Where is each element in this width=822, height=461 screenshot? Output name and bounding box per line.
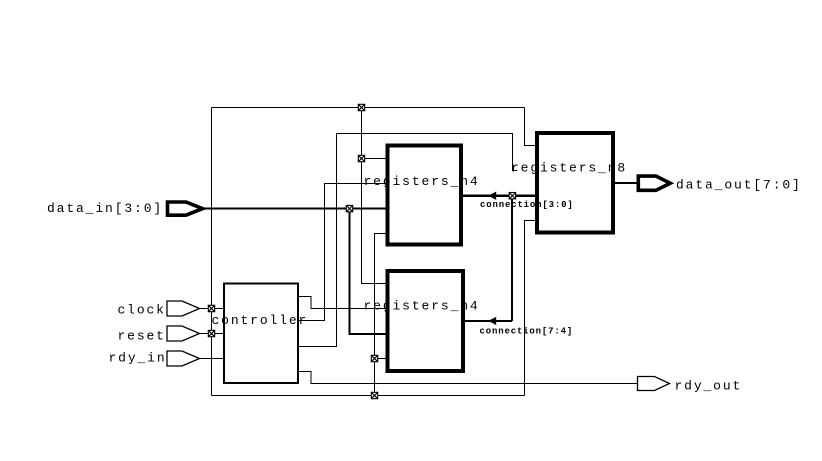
svg-text:data_out[7:0]: data_out[7:0]	[676, 178, 802, 193]
junction on top loop	[358, 104, 364, 110]
svg-text:rdy_out: rdy_out	[675, 379, 743, 394]
junction on bottom loop	[371, 392, 377, 398]
wire from bottom loop up into registers_n8 pin4	[525, 221, 538, 396]
wire controller pin1 to lower registers_n4 pin2	[298, 297, 389, 309]
svg-text:rdy_in: rdy_in	[109, 351, 167, 366]
svg-text:connection[3:0]: connection[3:0]	[480, 200, 574, 210]
bus data_in to top registers_n4 pin3	[203, 208, 387, 210]
port rdy_out	[638, 377, 670, 391]
wire top registers_n4 pin4 down to bottom loop	[375, 234, 390, 396]
wire controller pin4 to rdy_out port	[298, 372, 637, 384]
block registers_n4 top	[388, 146, 462, 245]
bus connection[7:4] into lower registers_n4	[463, 320, 512, 322]
wire net loop left vertical	[211, 108, 213, 396]
port rdy_in	[167, 351, 200, 366]
wire clock vertical to lower registers_n4 pin1	[362, 108, 390, 284]
junction connection bus	[509, 193, 515, 199]
svg-text:reset: reset	[118, 329, 166, 344]
wire clock branch to top registers_n4 pin1	[362, 158, 390, 160]
bus data_in branch down to lower registers_n4 pin3	[350, 209, 388, 334]
port reset	[167, 326, 200, 341]
wire reset port to controller	[200, 333, 226, 335]
bus data_out from registers_n8 to port	[613, 182, 639, 184]
wire into registers_n8 pin1	[525, 108, 538, 146]
arrow into lower registers_n4 right	[488, 317, 496, 325]
port data_in[3:0]	[168, 202, 203, 215]
svg-text:data_in[3:0]: data_in[3:0]	[47, 201, 163, 216]
svg-text:controller: controller	[212, 313, 309, 328]
arrow into top registers_n4 right	[488, 192, 496, 200]
wire net loop top horizontal	[212, 107, 525, 109]
wire rdy_in port to controller	[200, 358, 226, 360]
wire clock port to controller	[200, 308, 226, 310]
block controller	[224, 284, 298, 384]
svg-text:registers_n4: registers_n4	[364, 174, 480, 189]
wire net loop bottom horizontal	[212, 395, 525, 397]
bus connection[3:0] top registers_n4 to registers_n8	[461, 195, 537, 197]
block registers_n4 bottom	[388, 271, 464, 371]
port clock	[167, 301, 200, 316]
junction rdy net at lower registers_n4 pin4	[371, 355, 377, 361]
wire controller pin3 to registers_n8 pin2	[298, 134, 517, 347]
svg-text:registers_n4: registers_n4	[364, 299, 480, 314]
svg-text:registers_n8: registers_n8	[511, 161, 627, 176]
junction clock branch	[358, 155, 364, 161]
svg-text:clock: clock	[118, 303, 166, 318]
bus connection vertical branch	[511, 196, 513, 321]
junction clock at loop left	[208, 305, 214, 311]
junction reset at loop left	[208, 330, 214, 336]
svg-text:connection[7:4]: connection[7:4]	[480, 327, 574, 337]
junction data_in branch	[346, 205, 352, 211]
block registers_n8	[537, 133, 613, 233]
wire stub into lower registers_n4 pin4	[375, 358, 390, 360]
port data_out[7:0]	[638, 176, 670, 190]
wire controller pin2 to top registers_n4 pin2	[298, 184, 389, 321]
